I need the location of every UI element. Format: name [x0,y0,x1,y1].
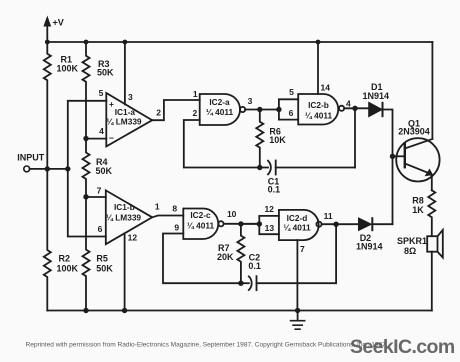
svg-text:10K: 10K [269,135,286,145]
node: rail at ground symbol [295,308,300,313]
svg-text:2N3904: 2N3904 [398,127,430,137]
svg-text:50K: 50K [97,68,114,78]
svg-text:11: 11 [324,211,333,221]
+V supply arrow [46,25,48,42]
svg-text:¼ 4011: ¼ 4011 [305,111,333,121]
svg-text:5: 5 [99,88,104,98]
resistor R5 [83,197,90,311]
svg-text:1: 1 [193,89,198,99]
node: C1 / R6 / IC2-a pin2 junction [257,165,262,170]
wire pin4 node to IC1-a [86,138,106,140]
svg-text:−: − [109,133,114,143]
node: IC1-a inverting input junction [83,136,88,141]
node: IC2-c output / R7 [238,221,243,226]
resistor R2 [44,169,51,311]
svg-text:20K: 20K [217,252,234,262]
svg-text:IC2-a: IC2-a [209,97,230,107]
svg-text:R2: R2 [59,253,71,263]
bottom ground rail wire [47,310,432,312]
svg-text:Reprinted with permission from: Reprinted with permission from Radio-Ele… [26,341,388,348]
svg-text:1N914: 1N914 [363,91,390,101]
svg-text:6: 6 [98,224,103,234]
nand gate IC2-c [183,209,218,240]
nand gate IC2-d [279,210,319,240]
wire Q1 emitter to R8 [430,174,433,190]
svg-text:¼ 4011: ¼ 4011 [187,220,215,230]
node: IC1-b non-inverting input junction [83,194,88,199]
op-amp IC1-b [106,190,152,244]
wire IC1-a output to IC2-a pin1 [152,100,200,120]
svg-text:SPKR1: SPKR1 [397,236,427,246]
svg-text:IC2-d: IC2-d [287,213,308,223]
svg-text:3: 3 [128,92,133,102]
resistor R8 [428,190,435,236]
resistor R1 [44,42,51,169]
nand gate IC2-a [200,94,240,125]
svg-text:SeekIC.com: SeekIC.com [350,336,455,358]
svg-text:¼ LM339: ¼ LM339 [106,212,141,222]
svg-text:IC2-b: IC2-b [308,100,329,110]
node: rail junction at R3 [84,40,89,45]
svg-text:12: 12 [264,204,274,214]
node: IC2-b input tie [276,107,281,112]
svg-text:¼ 4011: ¼ 4011 [206,107,234,117]
svg-text:12: 12 [128,233,138,243]
diode D2 [359,218,372,230]
ground [297,311,299,321]
node: IC2-d input tie [257,221,262,226]
resistor R3 [83,42,90,138]
pin 14 wire to rail [317,42,319,94]
svg-text:4: 4 [99,126,104,136]
wire INPUT to node [30,168,68,170]
capacitor C1 [260,167,268,169]
node: rail at R5 [83,308,88,313]
svg-text:14: 14 [321,83,331,93]
svg-text:100K: 100K [57,263,79,273]
svg-text:¼ LM339: ¼ LM339 [107,117,142,127]
svg-text:4: 4 [346,99,351,109]
pin 7 wire (GND) [296,240,298,310]
svg-text:0.1: 0.1 [268,185,281,195]
svg-text:1: 1 [155,202,160,212]
svg-text:+V: +V [53,18,64,28]
wire feedback IC2-d output to C2 [335,224,337,283]
svg-text:3: 3 [248,96,253,106]
svg-text:IC1-a: IC1-a [115,107,136,117]
svg-text:9: 9 [174,223,179,233]
pin 12 wire (GND) [124,234,126,311]
svg-text:R5: R5 [96,253,108,263]
wire IC2-c pin9 feedback [163,234,241,284]
node: rail junction at IC2-b pin14 [316,40,321,45]
node: C2 / R7 / pin9 junction [238,281,243,286]
svg-text:7: 7 [300,244,305,254]
wire Q1 collector to rail [431,42,433,139]
svg-text:2: 2 [193,108,198,118]
svg-text:IC1-b: IC1-b [114,202,135,212]
node: rail at IC1-b pin12 [122,308,127,313]
speaker SPKR1 [427,236,437,252]
svg-text:2: 2 [156,108,161,118]
wire input up to IC1-a + input [68,101,107,169]
wire input down to IC1-b - input [68,169,106,237]
capacitor C2 [241,282,249,284]
wire IC2-d output [322,223,359,225]
node: IC2-b output junction [352,106,357,111]
svg-text:1N914: 1N914 [356,241,383,251]
wire base node to Q1 [393,155,405,157]
wire IC2-b input tie bar [279,99,298,119]
node: rail junction at IC1-a pin3 [123,40,128,45]
wire speaker to ground rail [431,252,433,311]
wire D2 cathode up to base node [373,223,392,225]
svg-text:50K: 50K [96,264,113,274]
pin 3 wire (V+ to rail) [124,42,126,104]
top +V rail wire [47,41,432,43]
resistor R7 [237,224,244,283]
wire D1 cathode to base node [384,110,393,225]
wire IC2-b output [344,107,369,109]
wire pin7 node to IC1-b [86,196,106,198]
node: input at sense column [65,166,70,171]
svg-text:0.1: 0.1 [248,261,261,271]
node: rail junction at R1 [45,40,50,45]
resistor R4 [83,139,90,197]
svg-text:5: 5 [289,87,294,97]
wire IC2-c output [224,223,260,225]
svg-text:¼ 4011: ¼ 4011 [283,223,311,233]
wire feedback IC2-b output to C1 [354,108,356,167]
svg-text:IC2-c: IC2-c [190,210,211,220]
svg-text:6: 6 [289,108,294,118]
svg-text:8: 8 [172,204,177,214]
node: Q1 base junction [390,154,395,159]
svg-text:8Ω: 8Ω [404,246,416,256]
INPUT terminal [24,166,30,172]
resistor R6 [256,110,263,168]
svg-text:100K: 100K [57,64,79,74]
svg-text:13: 13 [265,223,275,233]
wire IC2-a pin2 feedback [184,120,260,168]
node: input at R1/R2 column [45,166,50,171]
svg-text:1K: 1K [412,205,424,215]
op-amp IC1-a [106,93,152,146]
transistor Q1 [396,138,439,181]
svg-text:7: 7 [97,186,102,196]
nand gate IC2-b [298,94,338,125]
svg-text:50K: 50K [96,166,113,176]
svg-text:INPUT: INPUT [17,153,45,163]
node: IC2-d output junction [333,222,338,227]
svg-text:+: + [109,99,114,109]
svg-text:10: 10 [227,209,237,219]
node: IC2-a output / R6 [257,107,262,112]
wire IC1-b output to IC2-c pin8 [152,216,183,218]
diode D1 [369,102,382,116]
wire IC2-d input tie bar [259,216,279,234]
wire IC2-a output [245,109,279,111]
